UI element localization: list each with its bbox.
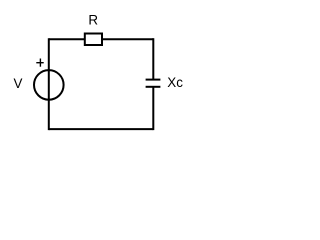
wire bottom horizontal bbox=[49, 128, 154, 130]
svg-text:V: V bbox=[14, 76, 23, 91]
capacitor Xc top plate bbox=[146, 79, 161, 81]
wire left vertical (through voltage source) bbox=[48, 38, 50, 130]
plus polarity mark of source V bbox=[36, 59, 43, 67]
resistor R (box body) bbox=[85, 34, 102, 46]
voltage source V (circle symbol) bbox=[34, 70, 64, 100]
svg-text:Xc: Xc bbox=[167, 75, 183, 90]
wire right vertical, lower segment (capacitor to bottom-right corner) bbox=[152, 87, 154, 130]
wire top, left segment (top-left corner to resistor) bbox=[49, 38, 85, 40]
capacitor Xc bottom plate bbox=[146, 86, 161, 88]
wire top, right segment (resistor to top-right corner) bbox=[102, 38, 153, 40]
svg-text:R: R bbox=[88, 13, 98, 28]
wire right vertical, upper segment (top-right corner to capacitor) bbox=[152, 38, 154, 79]
